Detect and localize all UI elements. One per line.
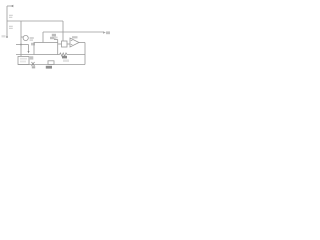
arrow head output: [103, 31, 106, 33]
wire left branch vertical: [20, 21, 22, 56]
wire box B2 left stub: [58, 43, 62, 45]
arrow head input left: [11, 5, 14, 8]
wire top stub: [7, 5, 13, 7]
label rail bottom: [2, 35, 6, 37]
label above stub: [54, 37, 58, 39]
resistor Rf zigzag: [60, 53, 68, 56]
wire output line: [43, 31, 103, 33]
wire inverting vertical x58: [57, 40, 59, 43]
wire mid vertical x63: [62, 21, 64, 41]
label below X: [32, 66, 35, 68]
op-amp input marks: [71, 41, 73, 45]
wire stub left: [16, 44, 21, 46]
wire feedback right: [67, 54, 85, 56]
box B1 bottom left: [18, 57, 29, 65]
wire top horizontal: [7, 20, 63, 22]
wire stub at top of x58: [54, 39, 58, 41]
wire lower left horizontal: [16, 53, 34, 55]
wire branch to arrow: [21, 44, 29, 46]
label below resistor Rf: [62, 56, 67, 59]
label above bottom rail faint: [63, 60, 69, 62]
box B2 input network: [62, 41, 68, 47]
arrow head down: [28, 51, 30, 54]
label output: [106, 31, 110, 34]
label above box U1: [50, 37, 56, 39]
label below output line: [52, 34, 56, 37]
wire arrow vertical: [28, 45, 30, 52]
label right of box B1: [30, 56, 34, 59]
label near arrow: [31, 43, 35, 46]
label right of Q1 circle: [30, 37, 34, 39]
wire right vertical: [84, 43, 86, 65]
wire bottom rail: [18, 64, 85, 66]
transistor Q1 base tick: [21, 36, 23, 38]
label below box B3: [46, 66, 52, 69]
label rail lower: [9, 26, 13, 28]
node junction dot: [20, 44, 22, 46]
label rail upper: [9, 15, 13, 17]
box U1 regulator: [34, 43, 58, 55]
op-amp U2: [70, 38, 79, 47]
label above op-amp: [72, 36, 78, 38]
wire box B2 right to opamp: [67, 43, 70, 45]
transistor Q1 circle: [23, 35, 28, 40]
component box B3 on bottom rail: [48, 61, 54, 65]
wire feedback line: [58, 54, 60, 56]
label inside box B1: [20, 58, 27, 60]
wire op-amp output: [79, 42, 85, 44]
fuse X mark: [32, 62, 35, 66]
wire box top pin: [42, 32, 44, 43]
wire supply rail vertical: [6, 6, 8, 38]
node rail bottom dot: [6, 36, 8, 38]
